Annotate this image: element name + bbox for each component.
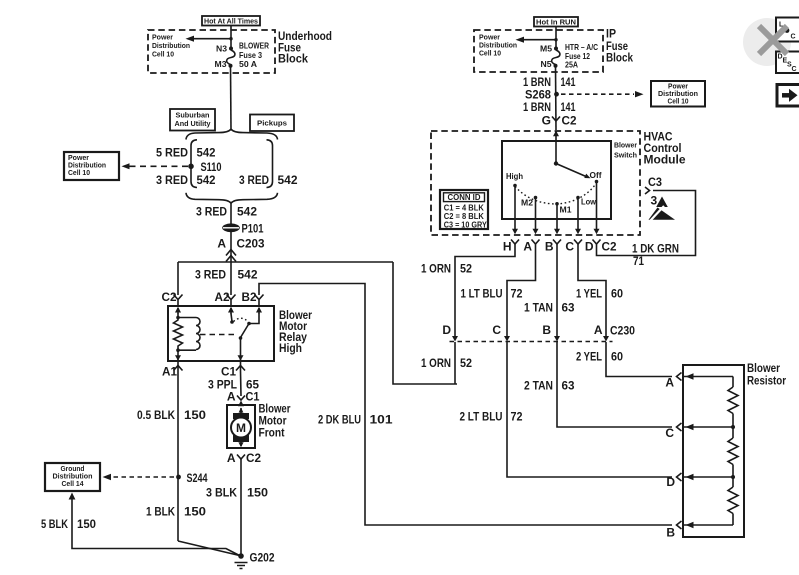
svg-text:C203: C203 xyxy=(237,237,265,251)
svg-text:A: A xyxy=(665,376,674,390)
svg-text:Block: Block xyxy=(606,51,633,65)
svg-text:A: A xyxy=(227,390,236,404)
svg-text:60: 60 xyxy=(611,350,623,364)
svg-text:C3: C3 xyxy=(648,175,662,189)
svg-text:542: 542 xyxy=(278,173,298,187)
svg-text:542: 542 xyxy=(237,205,257,219)
svg-text:D: D xyxy=(585,240,594,254)
svg-text:B: B xyxy=(666,526,675,540)
svg-text:D: D xyxy=(442,323,451,337)
svg-text:542: 542 xyxy=(197,146,216,160)
svg-text:B2: B2 xyxy=(242,290,257,304)
svg-text:P101: P101 xyxy=(242,222,264,236)
svg-text:3 RED: 3 RED xyxy=(195,268,226,282)
svg-text:C230: C230 xyxy=(610,324,635,338)
svg-text:A1: A1 xyxy=(162,365,177,379)
svg-text:71: 71 xyxy=(633,254,644,268)
svg-text:C2: C2 xyxy=(562,114,577,128)
svg-text:Cell 10: Cell 10 xyxy=(668,97,689,106)
svg-text:542: 542 xyxy=(197,173,216,187)
svg-text:72: 72 xyxy=(511,287,523,301)
svg-text:Hot In RUN: Hot In RUN xyxy=(536,18,576,27)
svg-text:Low: Low xyxy=(581,197,596,207)
svg-text:1 LT BLU: 1 LT BLU xyxy=(461,287,503,301)
svg-text:150: 150 xyxy=(184,505,206,519)
svg-text:S110: S110 xyxy=(201,160,222,174)
svg-text:Cell 10: Cell 10 xyxy=(479,49,501,58)
svg-text:B: B xyxy=(542,323,551,337)
svg-text:Block: Block xyxy=(278,52,308,66)
svg-text:Off: Off xyxy=(590,170,602,180)
svg-text:Switch: Switch xyxy=(614,151,637,160)
svg-text:High: High xyxy=(506,171,523,181)
svg-text:72: 72 xyxy=(511,410,523,424)
svg-text:M2: M2 xyxy=(521,198,533,208)
svg-text:101: 101 xyxy=(370,413,393,427)
svg-text:1 BRN: 1 BRN xyxy=(523,100,551,114)
svg-text:C2: C2 xyxy=(162,290,177,304)
svg-text:3 RED: 3 RED xyxy=(239,173,269,187)
svg-text:Hot At All Times: Hot At All Times xyxy=(204,17,258,26)
svg-text:3 RED: 3 RED xyxy=(196,205,227,219)
svg-text:And Utility: And Utility xyxy=(175,119,212,128)
svg-text:3 RED: 3 RED xyxy=(156,173,188,187)
svg-text:141: 141 xyxy=(561,75,576,89)
svg-text:60: 60 xyxy=(611,287,623,301)
svg-text:G202: G202 xyxy=(250,551,275,565)
svg-text:Cell 14: Cell 14 xyxy=(62,479,85,488)
svg-text:5 BLK: 5 BLK xyxy=(41,517,68,531)
svg-text:25A: 25A xyxy=(565,60,578,70)
svg-text:C2: C2 xyxy=(602,240,617,254)
svg-text:0.5 BLK: 0.5 BLK xyxy=(137,408,175,422)
svg-text:1 ORN: 1 ORN xyxy=(421,262,451,276)
svg-text:141: 141 xyxy=(561,100,576,114)
svg-text:M: M xyxy=(236,421,246,435)
svg-text:1 YEL: 1 YEL xyxy=(576,287,602,301)
svg-text:1 BLK: 1 BLK xyxy=(146,505,175,519)
svg-text:C3 = 10 GRY: C3 = 10 GRY xyxy=(444,220,487,230)
svg-text:C: C xyxy=(565,240,574,254)
svg-text:Module: Module xyxy=(644,153,686,167)
svg-text:C2: C2 xyxy=(246,451,261,465)
svg-text:63: 63 xyxy=(562,301,575,315)
svg-text:B: B xyxy=(545,240,554,254)
svg-text:N5: N5 xyxy=(541,59,552,69)
svg-text:52: 52 xyxy=(460,356,472,370)
svg-text:A: A xyxy=(217,237,226,251)
svg-text:52: 52 xyxy=(460,262,472,276)
svg-text:A: A xyxy=(594,323,603,337)
svg-text:M1: M1 xyxy=(560,205,572,215)
svg-text:High: High xyxy=(279,341,302,355)
svg-text:C: C xyxy=(792,66,797,73)
svg-text:Cell 10: Cell 10 xyxy=(152,50,174,59)
svg-text:Cell 10: Cell 10 xyxy=(68,168,90,177)
svg-text:150: 150 xyxy=(184,408,206,422)
svg-text:Resistor: Resistor xyxy=(747,374,786,388)
svg-text:Pickups: Pickups xyxy=(257,119,287,128)
svg-text:1 TAN: 1 TAN xyxy=(524,301,553,315)
svg-text:542: 542 xyxy=(238,268,258,282)
svg-text:1 ORN: 1 ORN xyxy=(421,356,451,370)
svg-text:C: C xyxy=(492,323,501,337)
svg-text:M5: M5 xyxy=(540,44,552,54)
svg-text:3: 3 xyxy=(651,194,658,208)
svg-text:2 YEL: 2 YEL xyxy=(576,350,602,364)
svg-text:150: 150 xyxy=(247,486,268,500)
svg-text:5 RED: 5 RED xyxy=(156,146,188,160)
svg-text:C: C xyxy=(791,34,796,41)
svg-text:G: G xyxy=(542,114,551,128)
svg-text:CONN ID: CONN ID xyxy=(448,192,481,202)
svg-text:S244: S244 xyxy=(187,471,208,485)
svg-text:D: D xyxy=(666,475,675,489)
svg-text:2 LT BLU: 2 LT BLU xyxy=(460,410,503,424)
svg-text:M3: M3 xyxy=(215,59,227,69)
svg-text:63: 63 xyxy=(562,379,575,393)
svg-text:H: H xyxy=(503,240,512,254)
svg-text:A: A xyxy=(227,451,236,465)
svg-text:BLOWER: BLOWER xyxy=(239,41,269,51)
svg-text:150: 150 xyxy=(77,517,96,531)
svg-text:A2: A2 xyxy=(215,290,230,304)
svg-text:50 A: 50 A xyxy=(239,59,257,69)
svg-text:2 TAN: 2 TAN xyxy=(524,379,553,393)
svg-text:2 DK BLU: 2 DK BLU xyxy=(318,413,361,427)
svg-text:Front: Front xyxy=(259,426,285,440)
svg-text:3 BLK: 3 BLK xyxy=(206,486,237,500)
svg-text:A: A xyxy=(523,240,532,254)
svg-text:C: C xyxy=(665,426,674,440)
svg-text:N3: N3 xyxy=(216,44,227,54)
svg-text:Blower: Blower xyxy=(614,141,637,150)
svg-text:C1: C1 xyxy=(221,365,236,379)
